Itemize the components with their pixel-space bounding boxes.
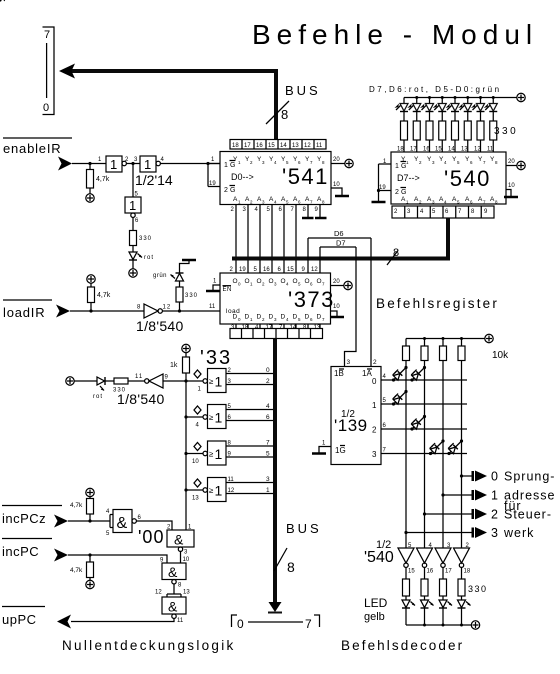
- svg-text:D: D: [257, 314, 262, 321]
- wire U5 output to U3 pin 11 load: [162, 309, 220, 312]
- label 0: [43, 102, 49, 114]
- svg-text:14: 14: [280, 143, 287, 149]
- svg-text:'139: '139: [334, 416, 368, 435]
- svg-text:4: 4: [266, 403, 270, 410]
- svg-text:Befehlsregister: Befehlsregister: [376, 296, 499, 311]
- label 1/2'14: [135, 172, 173, 188]
- svg-text:1: 1: [215, 410, 223, 426]
- svg-text:D7: D7: [336, 239, 346, 248]
- pin 10 GND of U3: [330, 304, 344, 317]
- svg-text:6: 6: [266, 414, 270, 421]
- output tap 1: [441, 490, 487, 501]
- svg-text:20: 20: [333, 157, 340, 163]
- svg-text:4,7k: 4,7k: [70, 567, 83, 574]
- svg-text:12: 12: [163, 305, 172, 311]
- wire thick bus from U2 connector down and left to register area: [232, 218, 450, 259]
- label 1/2 '540: [364, 539, 394, 566]
- svg-text:1: 1: [215, 446, 223, 462]
- VCC at 1k pullup: [182, 344, 190, 352]
- svg-text:0: 0: [266, 367, 270, 374]
- svg-text:11: 11: [228, 477, 235, 483]
- svg-text:0: 0: [491, 470, 498, 484]
- NAND gate G1 '00 as inverter: [106, 509, 142, 537]
- svg-text:12: 12: [304, 143, 311, 149]
- resistor 4,7k pullup loadIR: [88, 283, 111, 311]
- U3 bottom pin numbers 3,18,4,17,7,14,8,13: [231, 325, 321, 331]
- IC U2 '540 inverting buffer: [391, 152, 506, 205]
- NAND gate G3 '00: [162, 563, 186, 589]
- label Befehlsregister: [376, 296, 499, 311]
- resistors 330 x4 for LEDs: [403, 579, 488, 600]
- svg-text:Nullentdeckungslogik: Nullentdeckungslogik: [62, 638, 236, 653]
- svg-text:17: 17: [266, 325, 273, 331]
- resistor 4,7k pullup incPC: [70, 555, 94, 580]
- svg-text:2: 2: [224, 187, 228, 194]
- svg-text:O: O: [269, 278, 274, 285]
- label enableIR (active low): [3, 138, 72, 156]
- svg-text:7: 7: [266, 440, 270, 447]
- svg-text:12: 12: [155, 590, 162, 596]
- svg-text:20: 20: [333, 279, 340, 285]
- svg-text:16: 16: [256, 143, 263, 149]
- svg-text:1: 1: [266, 487, 270, 494]
- svg-text:Steuer-: Steuer-: [504, 508, 552, 522]
- svg-text:2: 2: [372, 426, 377, 435]
- svg-text:loadIR: loadIR: [3, 305, 45, 320]
- svg-text:D0-->: D0-->: [231, 172, 254, 182]
- svg-text:incPCz: incPCz: [2, 511, 46, 526]
- svg-text:D: D: [305, 314, 310, 321]
- wire thick bus vertical into U1 connector: [274, 69, 278, 140]
- wire G2 out to G3 pin 10: [181, 551, 190, 563]
- LEDs gelb x4: [402, 600, 471, 625]
- output tap 0 to Steuerwerk: [460, 471, 487, 482]
- svg-text:0: 0: [43, 102, 49, 114]
- pin 10 GND of U2: [504, 183, 518, 197]
- wire thick bus to address bracket (arrow left): [59, 64, 278, 79]
- svg-text:4,7k: 4,7k: [97, 292, 111, 299]
- svg-text:rot: rot: [144, 255, 154, 261]
- svg-text:O: O: [281, 278, 286, 285]
- wires U1 A1..A6 down to U3 '373 outputs: [236, 205, 296, 274]
- svg-text:D: D: [233, 314, 238, 321]
- VCC at zero LED: [66, 377, 74, 385]
- svg-text:1: 1: [395, 163, 399, 170]
- svg-text:0: 0: [237, 617, 244, 631]
- IC U1 '541 buffer: [220, 152, 331, 205]
- svg-text:D: D: [245, 314, 250, 321]
- title Befehle - Modul: [252, 19, 538, 50]
- svg-text:7: 7: [305, 617, 312, 631]
- wire incPCz to G1: [68, 519, 110, 522]
- svg-text:8: 8: [393, 247, 399, 259]
- svg-text:10: 10: [508, 183, 515, 189]
- svg-text:1: 1: [129, 198, 136, 213]
- svg-text:LED: LED: [364, 596, 388, 610]
- svg-text:O: O: [317, 278, 322, 285]
- svg-text:&: &: [117, 515, 128, 532]
- input arrow loadIR: [56, 305, 70, 318]
- svg-text:17: 17: [445, 569, 452, 575]
- VCC at incPC pullup: [86, 580, 94, 588]
- wire wired-AND zero line: [184, 373, 187, 530]
- svg-text:15: 15: [408, 569, 415, 575]
- pin 20 VCC of U2: [506, 159, 525, 170]
- pin number labels 2..9 below U1: [231, 207, 319, 213]
- svg-text:&: &: [174, 532, 184, 548]
- svg-text:D: D: [293, 314, 298, 321]
- svg-text:1G: 1G: [335, 446, 346, 455]
- resistor 4,7k pullup incPCz: [70, 497, 94, 521]
- svg-text:2: 2: [491, 508, 498, 522]
- label BUS bottom: [286, 521, 322, 536]
- NOR gate U6d '33 (bits 3,1): [186, 476, 273, 502]
- label 7 bottom bracket: [305, 617, 312, 631]
- VCC at incPCz pullup: [86, 488, 94, 496]
- svg-text:10: 10: [183, 557, 190, 563]
- output arrow upPC: [57, 615, 71, 629]
- bus connector row above U1 '541 pins 18..11: [230, 140, 326, 150]
- inverter U4c driving LED: [125, 192, 141, 225]
- svg-text:D7-->: D7-->: [397, 173, 420, 183]
- VCC rail above LED row: [404, 93, 525, 101]
- svg-text:1/2'14: 1/2'14: [135, 172, 173, 188]
- svg-text:13: 13: [192, 496, 199, 502]
- svg-text:330: 330: [139, 236, 152, 242]
- node D6 wire from U3 O6 to decoder: [308, 229, 371, 367]
- svg-text:8: 8: [287, 559, 295, 575]
- wire G1 out to G2 pin 2: [136, 521, 192, 531]
- svg-text:werk: werk: [503, 526, 534, 540]
- svg-text:1: 1: [491, 489, 498, 503]
- NAND gate G2 '00: [167, 530, 194, 556]
- svg-text:3: 3: [266, 476, 270, 483]
- svg-text:incPC: incPC: [2, 544, 39, 559]
- svg-text:≥: ≥: [209, 486, 214, 495]
- svg-text:16: 16: [427, 569, 434, 575]
- svg-text:Befehle - Modul: Befehle - Modul: [252, 19, 538, 50]
- inverters 1/2 '540 LED drivers: [398, 543, 471, 579]
- svg-text:O: O: [293, 278, 298, 285]
- labels 0..3 Sprungadresse fuer Steuerwerk: [491, 470, 555, 541]
- LED rot enableIR: [129, 252, 154, 269]
- matrix column wires 1..4: [406, 361, 462, 549]
- pin 1 EN to ground: [206, 279, 220, 292]
- svg-text:upPC: upPC: [2, 612, 37, 627]
- svg-text:1A: 1A: [362, 369, 372, 378]
- U2 pins 1,19 tied to ground: [372, 159, 392, 202]
- output tap 3: [404, 527, 487, 538]
- IC U7 1/2 '139 decoder: [331, 359, 381, 465]
- NOR gate U6a '33 (bits 0,2): [186, 367, 273, 393]
- svg-text:1: 1: [372, 401, 377, 410]
- label 1/8'540 lower: [117, 391, 165, 407]
- pin 1 1G to ground: [312, 441, 331, 454]
- svg-text:1: 1: [224, 162, 228, 169]
- svg-text:'00: '00: [138, 527, 164, 547]
- svg-text:14: 14: [290, 325, 297, 331]
- pin numbers 18..11 above U2 '540: [397, 147, 494, 153]
- ground at A8: [315, 205, 327, 219]
- wire incPC to G3 pin 9: [68, 553, 167, 563]
- pin 1 1G wire and tie to pin 19 2G: [206, 157, 220, 187]
- svg-text:'540: '540: [364, 549, 394, 566]
- resistor 330 zero LED: [113, 378, 128, 394]
- pin 20 VCC of U3: [331, 279, 353, 290]
- bus connector row below U3: [230, 324, 323, 339]
- resistor 1k wired-AND pullup: [170, 353, 190, 373]
- svg-text:rot: rot: [93, 394, 103, 400]
- caption Nullentdeckungslogik: [62, 638, 236, 653]
- bus width slash 8 top: [266, 101, 289, 124]
- svg-text:EN: EN: [223, 287, 232, 293]
- svg-text:18: 18: [464, 569, 471, 575]
- svg-text:G: G: [230, 162, 235, 169]
- label LED gelb: [364, 596, 388, 623]
- input arrow incPCz: [54, 515, 68, 528]
- svg-text:1: 1: [215, 483, 223, 499]
- input arrow incPC: [54, 549, 68, 562]
- svg-text:1B: 1B: [334, 369, 344, 378]
- label 0 bottom bracket: [237, 617, 244, 631]
- svg-text:20: 20: [508, 159, 515, 165]
- svg-text:'373: '373: [288, 287, 335, 312]
- svg-text:16: 16: [263, 267, 270, 273]
- svg-text:'33: '33: [200, 347, 232, 369]
- VCC below LED rot: [129, 269, 137, 277]
- svg-text:11: 11: [177, 618, 184, 624]
- svg-text:330: 330: [468, 584, 488, 594]
- label 1/8'540: [136, 318, 184, 334]
- svg-text:'540: '540: [444, 166, 491, 191]
- svg-text:7: 7: [44, 29, 50, 41]
- label D7,D6:rot, D5-D0:gruen: [369, 85, 502, 94]
- resistor 4,7k pullup enableIR: [87, 164, 110, 194]
- svg-text:grün: grün: [153, 273, 167, 279]
- wire G3 out to G4 tied inputs: [155, 584, 190, 597]
- svg-text:2: 2: [266, 378, 270, 385]
- svg-text:10k: 10k: [492, 350, 509, 361]
- svg-text:≥: ≥: [209, 450, 214, 459]
- LED row D7..D0 (8 LEDs): [395, 98, 498, 122]
- svg-text:13: 13: [183, 590, 190, 596]
- svg-text:gelb: gelb: [364, 611, 385, 623]
- svg-text:10: 10: [192, 459, 199, 465]
- inverter U4b 1/2'14: [140, 156, 165, 172]
- svg-text:8: 8: [281, 107, 288, 122]
- svg-text:O: O: [245, 278, 250, 285]
- svg-text:0: 0: [372, 377, 377, 386]
- svg-text:330: 330: [185, 293, 198, 299]
- svg-text:12: 12: [311, 267, 318, 273]
- svg-text:≥: ≥: [209, 377, 214, 386]
- resistor 330 LED enableIR: [130, 217, 153, 251]
- svg-text:&: &: [168, 599, 178, 615]
- wire U4a to U4b: [126, 157, 140, 165]
- inverter U5 1/8'540: [137, 304, 171, 318]
- svg-text:'541: '541: [282, 164, 329, 189]
- LED gruen loadIR: [153, 273, 184, 287]
- LED return rail to supply: [406, 621, 480, 629]
- svg-text:3: 3: [491, 526, 498, 540]
- node D7 wire from U3 O7 to decoder: [320, 239, 356, 367]
- svg-text:D: D: [317, 314, 322, 321]
- svg-text:enableIR: enableIR: [3, 141, 61, 156]
- resistors 10k x4: [403, 339, 510, 362]
- label incPC (active low): [2, 539, 52, 560]
- svg-text:≥: ≥: [209, 413, 214, 422]
- svg-text:4,7k: 4,7k: [96, 176, 110, 183]
- NAND gate G4 '00 as inverter: [162, 597, 186, 624]
- svg-text:1: 1: [144, 157, 151, 172]
- bus width slash 8 bottom: [274, 548, 295, 575]
- inverter U4a 1/2'14: [98, 156, 129, 172]
- svg-text:3: 3: [372, 450, 377, 459]
- bus width slash 8 middle: [387, 247, 399, 265]
- svg-text:D7,D6:rot, D5-D0:grün: D7,D6:rot, D5-D0:grün: [369, 85, 502, 94]
- svg-text:1: 1: [110, 157, 117, 172]
- svg-text:G: G: [401, 189, 406, 196]
- svg-text:18: 18: [242, 325, 249, 331]
- svg-text:4,7k: 4,7k: [70, 502, 83, 509]
- svg-text:15: 15: [268, 143, 275, 149]
- svg-text:12: 12: [228, 488, 235, 494]
- NOR gate U6c '33 (bits 7,5): [186, 440, 273, 466]
- ground above LED gruen: [180, 260, 197, 273]
- IC U3 '373 latch (Befehlsregister): [220, 273, 335, 324]
- svg-text:3: 3: [347, 359, 351, 366]
- svg-text:D: D: [269, 314, 274, 321]
- svg-text:2: 2: [373, 359, 377, 366]
- svg-text:BUS: BUS: [285, 83, 321, 98]
- svg-text:10: 10: [333, 182, 340, 188]
- label '33: [200, 347, 232, 369]
- wire thick bus down from U3 connector: [273, 339, 277, 604]
- NOR gate U6b '33 (bits 4,6): [186, 403, 273, 429]
- pin 20 VCC of U1: [331, 157, 353, 168]
- wire loadIR to inverter U5: [70, 309, 144, 312]
- wire enableIR to U4a: [72, 162, 106, 165]
- svg-text:11: 11: [316, 143, 323, 149]
- LED rot zero indicator: [74, 377, 114, 400]
- svg-text:G: G: [230, 187, 235, 194]
- diode matrix (6 diodes): [0, 0, 463, 455]
- label '00: [138, 527, 164, 547]
- label 7: [44, 29, 50, 41]
- caption Befehlsdecoder: [341, 638, 464, 653]
- svg-text:O: O: [233, 278, 238, 285]
- inverter U5b 1/8'540 zero LED driver: [128, 374, 186, 388]
- output tap 2: [423, 509, 487, 520]
- svg-text:5: 5: [266, 451, 270, 458]
- svg-text:330: 330: [113, 388, 126, 394]
- bus connector row below U2 pins 2..9: [392, 206, 494, 218]
- U3 top pin numbers 2,19,5,16,6,15,9,12: [230, 267, 319, 273]
- svg-text:1k: 1k: [170, 362, 178, 369]
- bus range bracket 0..7 bottom: [232, 615, 320, 627]
- svg-text:Sprung-: Sprung-: [504, 470, 555, 484]
- svg-text:2: 2: [395, 189, 399, 196]
- svg-text:11: 11: [209, 304, 216, 310]
- bus terminal arrow down: [268, 602, 282, 613]
- wire U4b output to U1 pin1: [160, 163, 220, 165]
- svg-text:O: O: [257, 278, 262, 285]
- resistor network 330 x8: [401, 121, 519, 152]
- svg-text:330: 330: [494, 126, 518, 137]
- svg-text:17: 17: [244, 143, 251, 149]
- svg-text:19: 19: [239, 267, 246, 273]
- svg-text:O: O: [305, 278, 310, 285]
- label upPC (active low): [2, 607, 45, 628]
- svg-text:11: 11: [135, 374, 143, 380]
- wire G4 out to upPC: [71, 618, 174, 621]
- svg-text:&: &: [168, 564, 178, 580]
- svg-text:13: 13: [314, 325, 321, 331]
- svg-text:BUS: BUS: [286, 521, 322, 536]
- VCC rail for 10k pullups: [406, 334, 493, 342]
- VCC at enableIR pullup: [86, 194, 94, 202]
- label loadIR (active low): [3, 300, 52, 320]
- svg-text:D: D: [281, 314, 286, 321]
- svg-text:13: 13: [292, 143, 299, 149]
- svg-text:10: 10: [333, 304, 340, 310]
- svg-text:18: 18: [232, 143, 239, 149]
- svg-text:15: 15: [287, 267, 294, 273]
- resistor 330 LED loadIR: [176, 287, 198, 311]
- U7 output row wires pins 4,5,6,7: [381, 374, 467, 454]
- svg-text:D6: D6: [334, 229, 344, 238]
- bus range bracket 7..0 top-left: [43, 27, 55, 115]
- ground at A7: [302, 205, 314, 219]
- pin 11 load label: [209, 304, 216, 310]
- label BUS top: [285, 83, 321, 98]
- label incPCz (active low): [2, 506, 62, 527]
- svg-text:Befehlsdecoder: Befehlsdecoder: [341, 638, 464, 653]
- wire junction down to inverter U4c: [132, 164, 134, 198]
- pin 10 GND of U1: [331, 182, 349, 196]
- svg-text:1/8'540: 1/8'540: [136, 318, 184, 334]
- svg-text:1: 1: [215, 374, 223, 390]
- VCC at loadIR pullup: [87, 275, 95, 283]
- input arrow enableIR: [58, 157, 72, 171]
